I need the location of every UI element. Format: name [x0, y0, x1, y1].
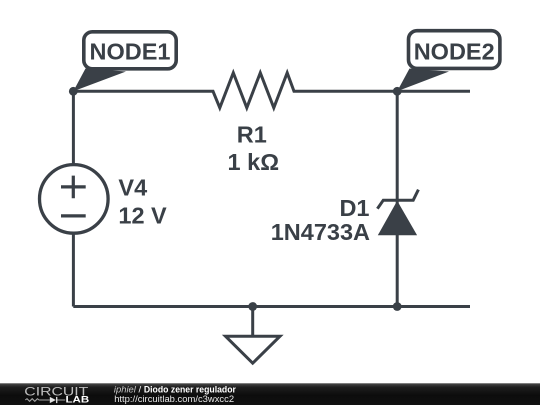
svg-text:1 kΩ: 1 kΩ	[228, 149, 280, 175]
svg-text:1N4733A: 1N4733A	[271, 219, 370, 245]
svg-text:12 V: 12 V	[118, 202, 167, 228]
svg-text:NODE2: NODE2	[414, 39, 495, 65]
svg-text:R1: R1	[237, 122, 267, 148]
svg-text:D1: D1	[339, 195, 369, 221]
svg-text:V4: V4	[118, 175, 147, 201]
svg-text:NODE1: NODE1	[90, 39, 171, 65]
svg-text:LAB: LAB	[66, 395, 90, 405]
svg-text:http://circuitlab.com/c3wxcc2: http://circuitlab.com/c3wxcc2	[114, 394, 234, 405]
